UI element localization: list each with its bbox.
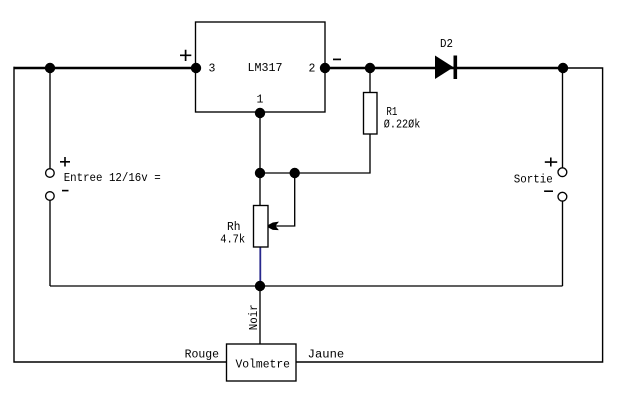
wire from output node down to Sortie + terminal (562, 68, 564, 168)
wire top-right thick from LM317 pin 2 to output node (325, 67, 563, 70)
plus sign Sortie (545, 158, 557, 167)
wire from LM317 pin 1 down to Rh top (259, 113, 261, 206)
minus sign at LM317 output (333, 58, 341, 60)
node D junction dot (255, 281, 265, 291)
wire from Sortie - terminal down to middle rail (562, 201, 564, 286)
resistor R1 (364, 93, 378, 135)
wiper arrowhead into Rh (267, 223, 277, 230)
svg-text:Rouge: Rouge (185, 349, 220, 362)
junction dot at R1 top (365, 63, 375, 73)
wire top-left thick from left rail to LM317 pin 3 (14, 67, 197, 70)
output node junction dot (558, 63, 568, 73)
potentiometer Rh (254, 206, 269, 248)
svg-text:3: 3 (209, 63, 216, 76)
Entree - terminal circle (46, 192, 55, 201)
svg-text:2: 2 (309, 63, 316, 76)
svg-text:R1: R1 (386, 106, 397, 119)
pin 3 junction dot (191, 63, 201, 73)
wire right outer rail from output node along top, down and along bottom to voltmeter (296, 68, 603, 362)
svg-text:D2: D2 (440, 38, 453, 51)
svg-text:Volmetre: Volmetre (236, 359, 291, 372)
svg-text:4.7k: 4.7k (220, 234, 245, 247)
node C junction dot (290, 168, 300, 178)
svg-text:Jaune: Jaune (308, 349, 345, 362)
wire from R1 bottom down then left to node B (260, 134, 370, 173)
wire left outer rail down and along bottom to voltmeter (14, 67, 227, 362)
svg-text:Sortie: Sortie (514, 174, 553, 187)
wire wiper feed from node C down to arrow (270, 173, 295, 226)
plus sign Entree (60, 157, 70, 167)
wire from node A down to Entree + terminal (49, 68, 51, 169)
wire middle rail (50, 285, 563, 287)
svg-text:Ø.22Øk: Ø.22Øk (384, 119, 421, 132)
wire blue from Rh bottom to node D (259, 247, 261, 286)
svg-text:Noir: Noir (248, 304, 261, 330)
Entree + terminal circle (46, 169, 55, 178)
wire from Entree - terminal down to middle rail (49, 200, 51, 286)
node A junction dot top-left (45, 63, 55, 73)
node B junction dot (255, 168, 265, 178)
op-amp U1 LM317 regulator box (196, 22, 326, 112)
svg-text:Entree 12/16v =: Entree 12/16v = (64, 172, 161, 185)
minus sign Sortie (544, 190, 553, 192)
pin 2 junction dot (320, 63, 330, 73)
svg-text:LM317: LM317 (248, 62, 283, 75)
voltmeter box (227, 344, 297, 381)
pin 1 junction dot (255, 108, 265, 118)
Sortie + terminal circle (558, 168, 567, 177)
minus sign Entree (62, 190, 69, 192)
diode D2 (435, 56, 454, 80)
wire from top rail down to R1 top (369, 68, 371, 93)
wire from node D down to voltmeter top (259, 286, 261, 344)
svg-text:Rh: Rh (227, 221, 241, 234)
plus sign at LM317 input (180, 50, 191, 61)
Sortie - terminal circle (558, 192, 567, 201)
svg-text:1: 1 (257, 94, 264, 107)
